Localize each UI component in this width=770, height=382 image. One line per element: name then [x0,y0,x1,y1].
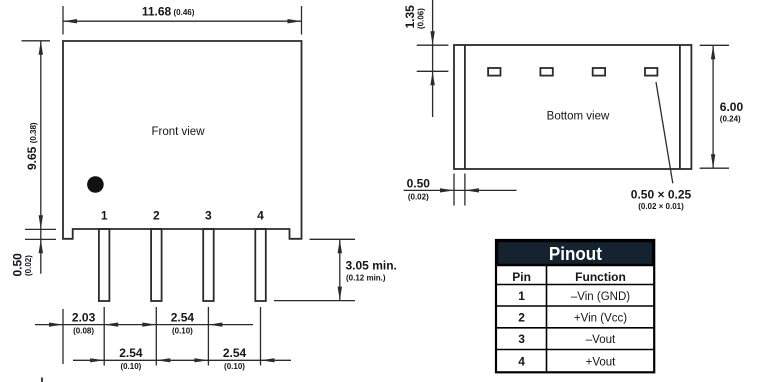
svg-text:(0.06): (0.06) [417,8,426,29]
dimension 1.35: extension lines [417,45,449,71]
pin 3 lead (front view) [203,229,214,301]
dimension 0.50 (bottom view): dimension line [404,189,517,191]
dimension 6.00: extension lines [700,45,729,168]
svg-text:–Vin (GND): –Vin (GND) [571,291,630,303]
svg-text:0.50 × 0.25: 0.50 × 0.25 [631,187,692,201]
bottom view package body outline [454,45,691,169]
dimension 3.05 min: arrowheads [338,239,342,253]
dimension 0.50 (bottom view): extension lines [454,174,465,206]
svg-text:4: 4 [257,209,264,223]
svg-text:Pin: Pin [512,270,531,284]
dimension 1.35: dimension line [432,0,434,117]
dimension 9.65 / 0.50: shared dimension line [40,41,42,274]
pin 2 slot (bottom view) [540,68,552,76]
svg-text:+Vout: +Vout [586,356,617,368]
pinout table grid lines [496,285,654,350]
bottom view inner left edge line [464,45,466,169]
dimension 11.68: extension lines [63,6,302,35]
dimension 6.00: dimension line [712,45,714,168]
dimension 11.68: dimension line [63,20,302,22]
pinout table column divider [546,265,548,372]
dimension 9.65: arrowheads [39,41,43,55]
svg-text:(0.02): (0.02) [24,255,33,276]
svg-text:2: 2 [153,209,160,223]
pinout table outer border [496,240,654,372]
front view package body outline [63,41,302,239]
dimension 3.05 min: extension lines [274,239,355,300]
svg-text:Pinout: Pinout [549,244,602,264]
svg-text:Bottom view: Bottom view [547,111,610,123]
svg-text:(0.24): (0.24) [720,115,741,124]
leader line for pad size callout [656,82,673,183]
dimension 0.50 standoff: extension lines [25,229,56,239]
dimension 1.35: value label (rotated) [403,5,417,29]
svg-text:1: 1 [518,289,525,303]
svg-text:Front view: Front view [151,126,205,138]
dimension 9.65: value label (rotated) [25,122,39,170]
svg-text:(0.10): (0.10) [224,362,245,371]
pin 2 lead (front view) [151,229,162,301]
bottom view inner right edge line [679,45,681,169]
svg-text:0.50: 0.50 [11,253,25,277]
dimension row 2: arrowheads [90,358,104,362]
dimension 1.35: arrowheads [430,31,434,45]
dimension row 1: arrowheads [49,323,63,327]
pin 1 slot (bottom view) [488,68,500,76]
svg-text:2: 2 [518,310,525,324]
pin 4 slot (bottom view) [645,68,657,76]
svg-text:Function: Function [575,270,626,284]
svg-text:(0.10): (0.10) [120,362,141,371]
svg-text:(0.12 min.): (0.12 min.) [346,274,386,283]
svg-text:(0.02 × 0.01): (0.02 × 0.01) [638,202,684,211]
svg-text:3: 3 [518,332,525,346]
pin 3 slot (bottom view) [593,68,605,76]
svg-text:2.54: 2.54 [171,310,195,324]
dimension 0.50 standoff: value label (rotated) [11,253,25,277]
bottom dimension rows: extension lines [63,307,261,366]
dimension 0.50 standoff: arrowhead below [39,239,43,253]
svg-text:2.54: 2.54 [119,346,143,360]
svg-text:1.35: 1.35 [403,5,417,29]
pinout table header band [497,241,653,265]
svg-text:3: 3 [205,209,212,223]
svg-text:4: 4 [518,354,525,368]
svg-text:6.00: 6.00 [720,100,744,114]
svg-text:(0.02): (0.02) [408,193,429,202]
stray fragment bottom-left [41,378,43,382]
pin 4 lead (front view) [255,229,265,301]
svg-text:3.05 min.: 3.05 min. [346,259,397,273]
svg-text:2.03: 2.03 [72,310,96,324]
dimension 3.05 min: dimension line [339,239,341,300]
dimension 0.50 (bottom view): arrowheads [440,188,454,192]
svg-text:2.54: 2.54 [223,346,247,360]
svg-text:(0.10): (0.10) [172,327,193,336]
dimension 6.00: arrowheads [711,45,715,59]
svg-text:11.68: 11.68 [142,4,172,18]
dimension 9.65: top extension line [22,40,51,42]
dimension row 1: dimension line [35,324,253,326]
svg-text:–Vout: –Vout [586,334,616,346]
svg-text:(0.46): (0.46) [174,8,195,17]
dimension row 2: dimension line [73,359,291,361]
svg-text:+Vin (Vcc): +Vin (Vcc) [574,312,627,324]
pin 1 index dot [87,176,104,193]
svg-text:(0.08): (0.08) [73,327,94,336]
pin 1 lead (front view) [99,229,110,301]
svg-text:1: 1 [101,209,108,223]
svg-text:0.50: 0.50 [407,177,431,191]
dimension 11.68: arrowheads [63,19,77,23]
